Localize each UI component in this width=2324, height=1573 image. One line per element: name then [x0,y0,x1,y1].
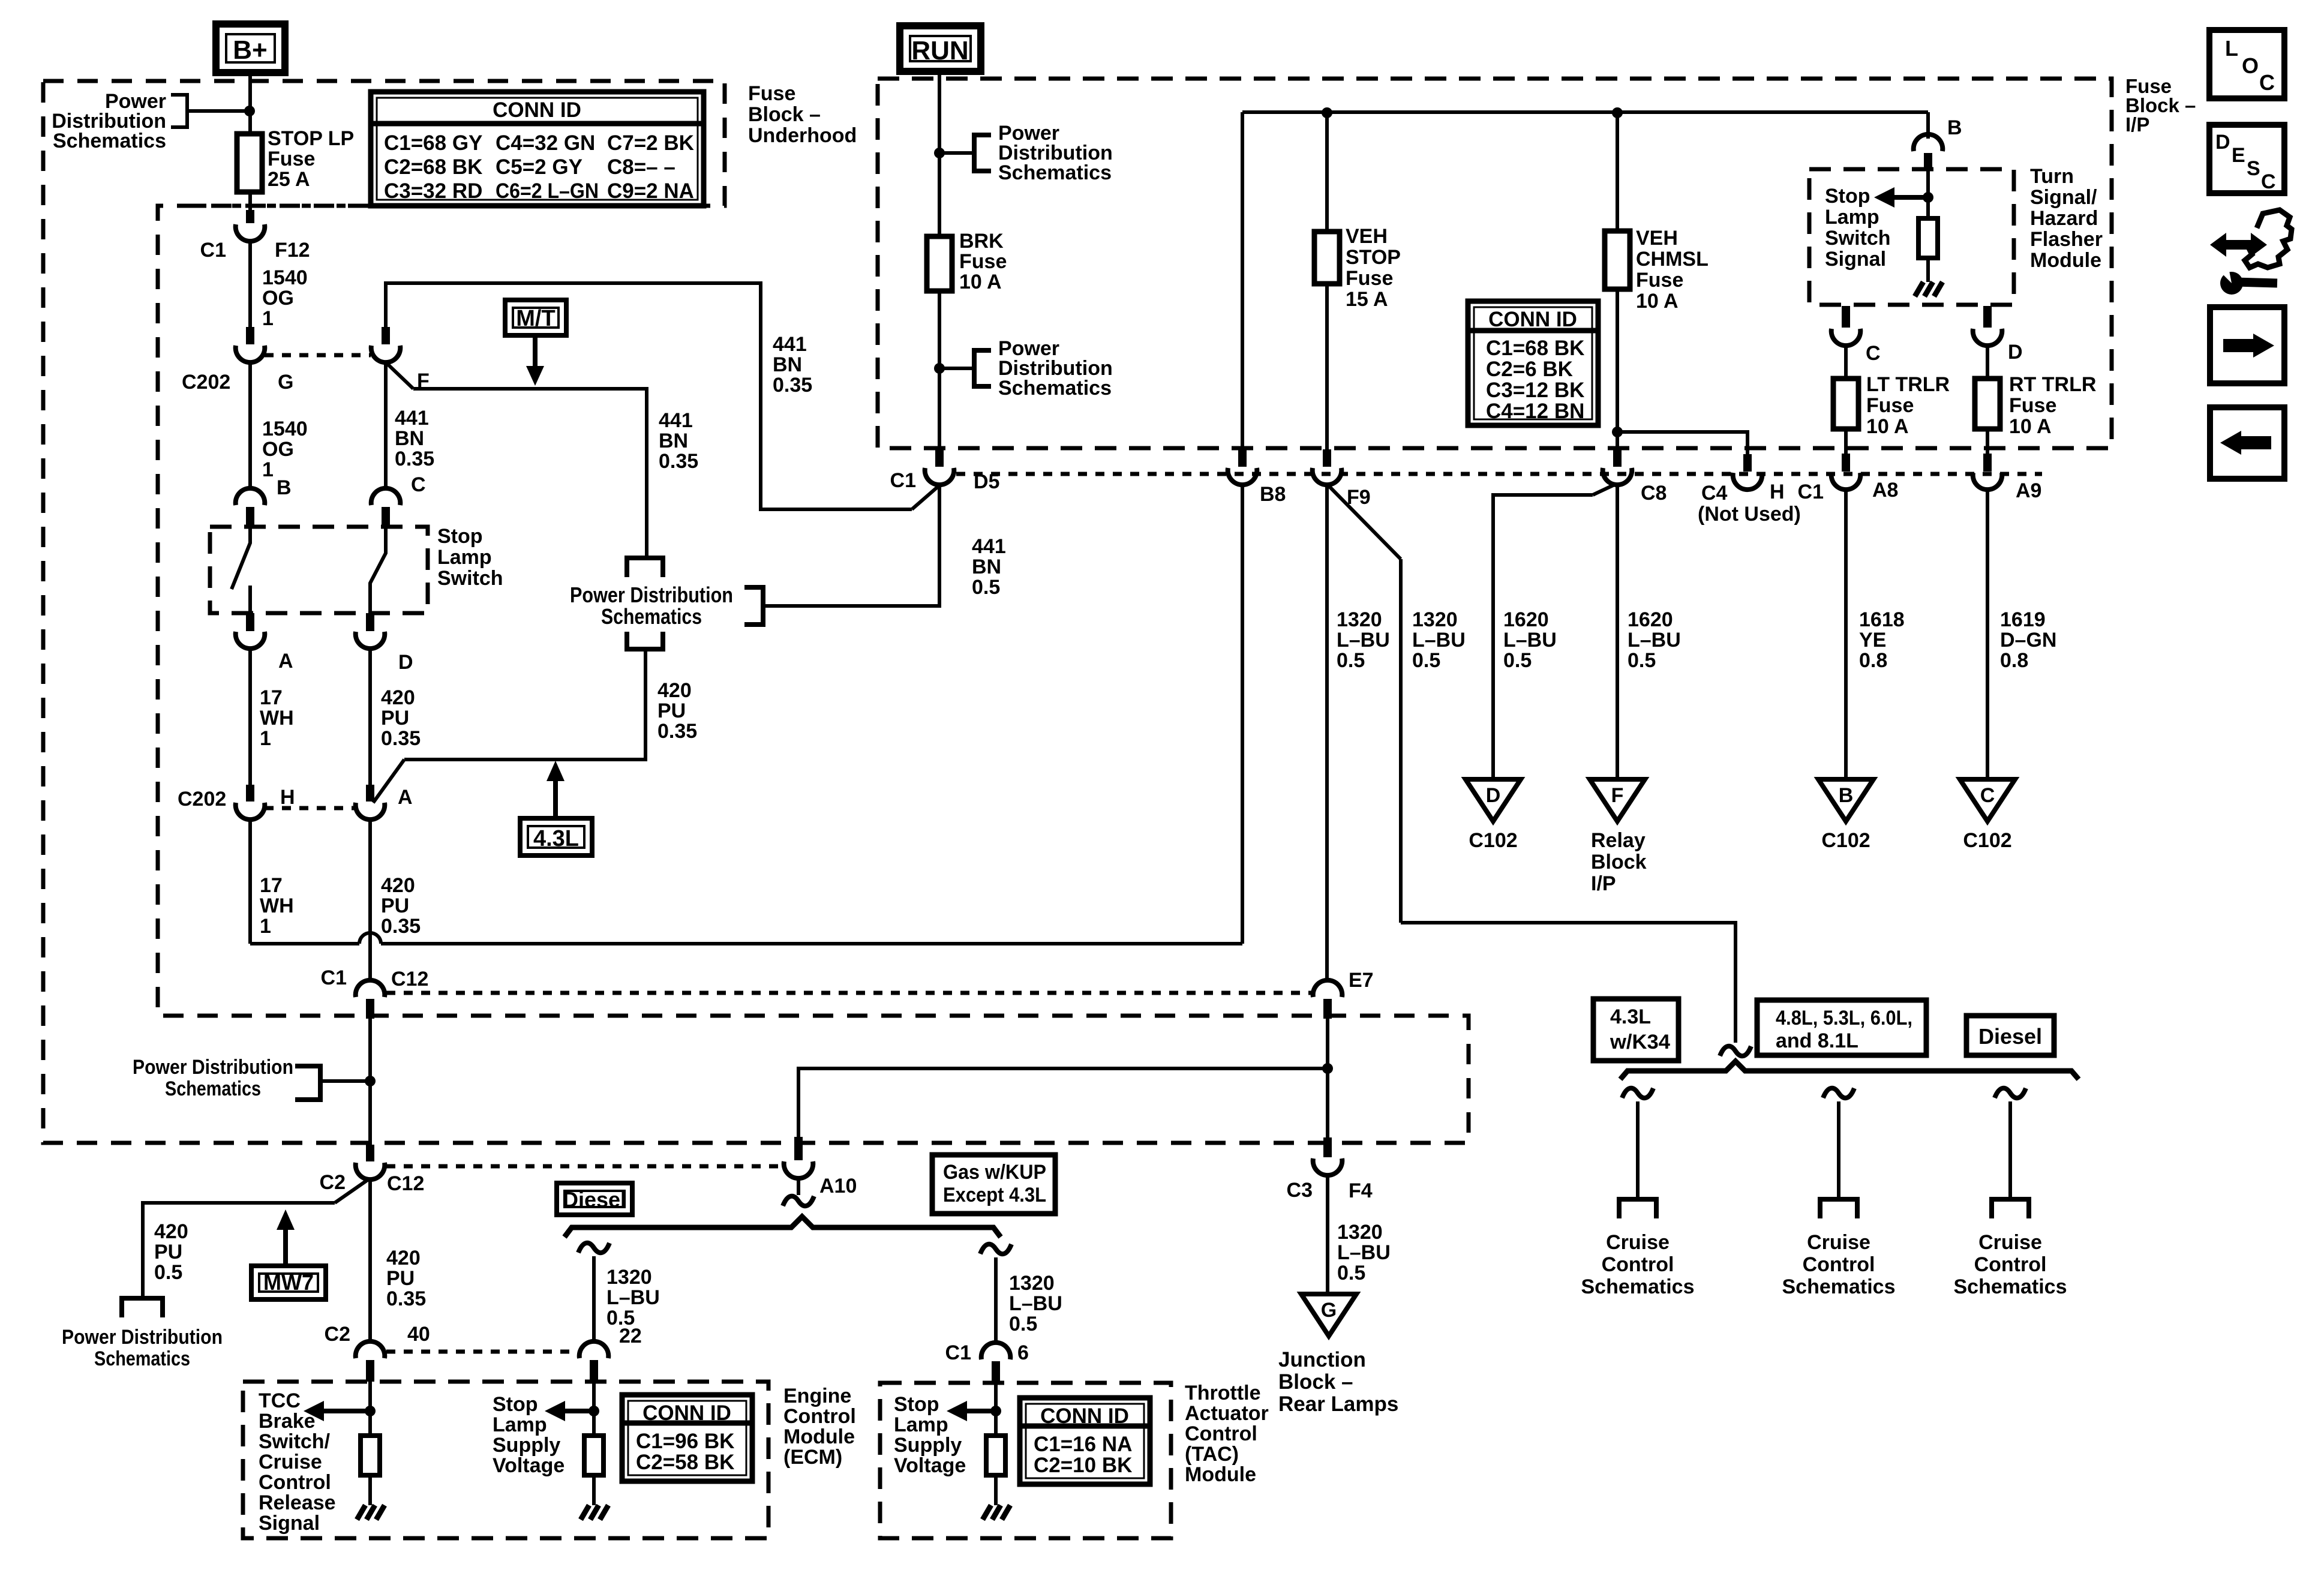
turn signal hazard flasher dashed box [1809,169,2014,305]
svg-text:C3=12 BK: C3=12 BK [1486,379,1584,402]
connector line C202 bottom dotted [265,806,358,810]
terminal bar C [382,507,390,526]
wire A9 to C102 C [1986,488,1989,799]
triangle connector D [1466,779,1521,821]
wire 1320 LBU TAC branch [994,1257,998,1341]
arrow 4.3L to wire [553,781,558,818]
icon schematic navigation [2210,233,2267,257]
svg-text:Fuse: Fuse [1866,394,1914,417]
terminal bar E7 [1323,999,1332,1019]
wire D to RT TRLR fuse [1986,344,1989,379]
arrow MW7 to wire [283,1230,288,1266]
wire 1540 OG to switch B [248,362,252,486]
svg-text:I/P: I/P [2125,113,2149,136]
svg-text:CONN ID: CONN ID [1040,1404,1129,1428]
svg-text:L–BU: L–BU [1412,629,1466,652]
wire from F up to junction corner [386,283,912,509]
wire B8 column upper [1241,112,1244,449]
svg-text:441: 441 [773,333,807,356]
svg-text:L: L [2225,36,2238,61]
arrow stop lamp switch signal [1890,195,1928,200]
svg-text:Stop: Stop [437,525,483,548]
svg-text:0.35: 0.35 [386,1287,426,1310]
resistor ECM TCC input [361,1436,380,1475]
svg-text:C202: C202 [178,788,226,810]
wire fuse to connector C1 [248,192,252,210]
switch contact left [232,527,250,589]
svg-text:C102: C102 [1963,829,2011,852]
svg-text:C2=68 BK: C2=68 BK [384,155,482,179]
ground flasher [1915,282,1923,296]
svg-text:C1=68 GY: C1=68 GY [384,131,482,155]
svg-text:Control: Control [1185,1422,1257,1445]
svg-text:B: B [1839,784,1854,807]
svg-text:0.5: 0.5 [606,1307,635,1329]
switch contact right [370,527,386,613]
svg-text:1320: 1320 [1009,1272,1055,1295]
fuse VEH CHMSL 10A [1605,231,1630,289]
svg-text:F12: F12 [275,239,310,262]
svg-text:Cruise: Cruise [1807,1231,1870,1254]
svg-text:Diesel: Diesel [563,1187,626,1212]
wire VEH STOP fuse lower [1325,284,1329,449]
svg-text:Module: Module [2030,249,2101,272]
svg-text:C1: C1 [321,966,347,989]
svg-text:D: D [2008,341,2023,364]
terminal bar C202 H [246,785,254,801]
svg-text:Turn: Turn [2030,165,2074,188]
wire VEH CHMSL fuse upper [1616,113,1619,231]
svg-text:OG: OG [262,287,294,310]
svg-text:Except 4.3L: Except 4.3L [943,1184,1046,1206]
wire D5 down to reference [763,484,939,606]
svg-text:C4=12 BN: C4=12 BN [1486,400,1584,423]
svg-text:Engine: Engine [783,1385,851,1407]
svg-text:B8: B8 [1260,483,1286,506]
icon box arrow left [2210,407,2284,479]
break squiggle cruise branch 3 [1995,1088,2026,1098]
svg-text:C1=16 NA: C1=16 NA [1034,1433,1132,1456]
bus wire RUN feed top [1242,110,1928,114]
svg-text:C102: C102 [1821,829,1870,852]
terminal bar D flasher out [1983,306,1992,328]
svg-text:1320: 1320 [1337,608,1382,631]
svg-text:C8=– –: C8=– – [607,155,675,179]
svg-text:Fuse: Fuse [748,82,795,105]
wire diagonal F9 branch [1329,486,1401,559]
svg-text:Relay: Relay [1591,829,1646,852]
callout 4.3L w K34 box [1593,999,1679,1061]
node stop lamp supply junction ECM [588,1406,599,1416]
svg-text:441: 441 [659,409,693,432]
wire 420 PU 0.35 to ECM [368,1178,372,1341]
svg-text:Supply: Supply [894,1434,962,1457]
node junction on 420 PU wire [365,1076,376,1086]
svg-text:Power Distribution: Power Distribution [570,583,733,607]
svg-text:PU: PU [386,1267,415,1290]
connector C4 H arc [1733,473,1762,490]
svg-text:Schematics: Schematics [601,604,702,629]
svg-text:STOP LP: STOP LP [268,127,354,150]
svg-text:C9=2 NA: C9=2 NA [607,179,694,203]
wire VEH CHMSL fuse lower [1616,289,1619,449]
svg-text:Stop: Stop [493,1393,538,1416]
svg-text:Cruise: Cruise [259,1451,322,1473]
svg-text:C1: C1 [945,1341,971,1364]
node VEH CHMSL tap [1612,107,1623,118]
triangle connector C [1960,779,2015,821]
wire power distribution tap bottom left [320,1079,370,1083]
fuse LT TRLR 10A [1833,379,1858,429]
power feed B+ box [216,24,285,73]
connector C2 40 arc [356,1341,385,1358]
svg-text:0.5: 0.5 [972,576,1000,599]
svg-text:A8: A8 [1872,479,1898,502]
svg-text:0.5: 0.5 [1337,1262,1365,1284]
svg-text:420: 420 [381,874,415,897]
connector B8 arc [1228,468,1257,485]
wire diagonal A to 420 PU branch [373,760,404,803]
svg-text:10 A: 10 A [959,271,1002,293]
underbrace gas diesel split [565,1217,1001,1237]
svg-text:Throttle: Throttle [1185,1382,1261,1404]
break squiggle cruise feed [1720,1046,1751,1056]
svg-text:Voltage: Voltage [894,1454,966,1477]
svg-text:C5=2 GY: C5=2 GY [496,155,582,179]
wire BRK fuse to D5 [938,291,941,449]
svg-text:C8: C8 [1641,482,1667,505]
wire 420 PU to power distribution center [404,649,645,760]
terminal bar C flasher out [1842,306,1850,328]
svg-text:RT TRLR: RT TRLR [2009,373,2096,396]
svg-text:Lamp: Lamp [493,1413,547,1436]
svg-text:C12: C12 [387,1172,424,1195]
svg-text:420: 420 [381,686,415,709]
svg-text:Fuse: Fuse [959,250,1007,273]
svg-text:PU: PU [154,1241,182,1263]
svg-text:Diesel: Diesel [1978,1024,2042,1049]
terminal bar B8 [1238,449,1247,467]
svg-text:Block: Block [1591,851,1647,873]
wire 420 PU to C2 C12 [368,1019,372,1145]
fuse RT TRLR 10A [1975,379,2000,429]
svg-text:0.5: 0.5 [1412,649,1440,672]
svg-text:C2: C2 [325,1323,350,1346]
connector line C202 dotted [265,353,371,358]
svg-text:PU: PU [381,894,409,917]
connector arc D [356,632,385,649]
connector B arc flasher [1914,134,1943,151]
node H branch tap [1612,427,1623,437]
svg-text:L–BU: L–BU [606,1286,660,1309]
wire cruise branch 2 [1837,1101,1840,1199]
svg-text:Schematics: Schematics [165,1077,261,1100]
conn id table ECM [622,1395,752,1481]
svg-text:C: C [1866,342,1881,365]
node VEH STOP tap [1322,107,1332,118]
wire 17 WH lower segment [248,819,252,944]
connector 22 arc [580,1341,609,1358]
svg-text:Schematics: Schematics [53,130,166,152]
svg-text:LT TRLR: LT TRLR [1866,373,1950,396]
fuse STOP LP 25A [237,134,262,192]
svg-text:Schematics: Schematics [1581,1275,1695,1298]
svg-text:40: 40 [407,1323,430,1346]
svg-text:441: 441 [395,407,429,430]
svg-text:A: A [398,786,413,809]
wire into stop lamp supply node ECM [592,1382,596,1436]
svg-text:C1=96 BK: C1=96 BK [636,1430,734,1453]
svg-text:Lamp: Lamp [1825,206,1879,229]
connector arc A [236,632,265,649]
svg-text:Brake: Brake [259,1410,316,1433]
svg-text:1: 1 [262,307,274,330]
svg-text:1618: 1618 [1859,608,1905,631]
svg-text:Stop: Stop [1825,185,1870,208]
svg-text:TCC: TCC [259,1389,301,1412]
svg-text:C2=6 BK: C2=6 BK [1486,358,1573,381]
svg-text:G: G [1321,1299,1337,1322]
conn id table TAC [1020,1398,1150,1484]
svg-text:Schematics: Schematics [94,1347,190,1370]
svg-text:CHMSL: CHMSL [1636,248,1709,271]
terminal bar C202 G [246,327,254,344]
ignition RUN box [900,26,981,71]
reference bracket center [744,587,763,625]
svg-text:M/T: M/T [516,306,555,331]
svg-text:A: A [278,650,293,673]
icon box DESC [2209,125,2284,193]
svg-text:H: H [280,786,295,809]
terminal bar F9 [1323,449,1331,467]
svg-text:Control: Control [1803,1253,1875,1276]
svg-text:0.5: 0.5 [1628,649,1656,672]
wire cruise branch 1 [1636,1101,1640,1199]
terminal bar pin 22 [590,1360,598,1382]
node stop lamp supply junction TAC [990,1406,1001,1416]
resistor TAC stop lamp input [986,1436,1005,1475]
wire 1320 branch to cruise brace [1401,923,1736,1043]
svg-text:Power Distribution: Power Distribution [133,1056,293,1079]
svg-text:Schematics: Schematics [1782,1275,1896,1298]
svg-text:C6=2 L–GN: C6=2 L–GN [496,179,599,203]
svg-text:w/K34: w/K34 [1610,1031,1670,1053]
connector C202 cavity A [356,803,385,819]
wire diagonal F to power distribution [386,362,413,389]
wire C to LT TRLR fuse [1844,344,1848,379]
wire resistor to ground [368,1475,372,1505]
wire A10 link to F4 node [798,1068,1328,1137]
svg-text:0.35: 0.35 [659,450,698,473]
connector arc C at switch [371,488,401,505]
wire 17 WH segment [248,648,252,785]
svg-text:E7: E7 [1349,969,1374,992]
terminal bar C2 C12 [366,1145,374,1161]
terminal bar C202 A [366,785,374,801]
wire 1320 branch down [1399,559,1403,923]
fuse VEH STOP 15A [1314,232,1340,284]
connector C1 F12 [236,224,265,241]
gas w KUP callout box [932,1155,1055,1214]
svg-text:420: 420 [657,679,692,702]
wire 441 BN to center reference [413,389,647,558]
svg-text:10 A: 10 A [2009,415,2052,438]
reference bracket power distribution schematics [171,95,187,127]
svg-text:O: O [2242,53,2259,78]
node junction on B+ wire [244,106,255,116]
svg-text:CONN ID: CONN ID [1488,308,1577,331]
wire diagonal into C1 D5 [912,485,939,509]
svg-text:Flasher: Flasher [2030,228,2103,251]
svg-text:CONN ID: CONN ID [642,1401,731,1425]
reference stub cruise 1 [1619,1199,1656,1218]
reference bracket RUN upper [974,135,991,171]
connector F9 arc [1313,468,1342,485]
node junction at F4 column [1322,1063,1333,1074]
break squiggle cruise branch 1 [1622,1088,1653,1098]
svg-text:Fuse: Fuse [1636,269,1683,292]
connector E7 arc [1313,980,1343,997]
reference bracket bottom left [295,1066,320,1100]
connector C2 C12 arc [356,1163,385,1179]
svg-text:420: 420 [386,1247,421,1269]
svg-text:C: C [2261,170,2276,193]
svg-text:17: 17 [260,874,283,897]
svg-text:1620: 1620 [1503,608,1549,631]
M/T callout box [505,300,566,335]
terminal bar D [366,613,374,631]
svg-text:C1: C1 [200,239,226,262]
svg-text:C1: C1 [1798,481,1824,503]
wire to power distribution bracket [187,109,250,113]
svg-text:L–BU: L–BU [1337,629,1390,652]
svg-text:15 A: 15 A [1346,288,1388,311]
terminal bar C2 40 [366,1360,374,1382]
ground TAC stop lamp [983,1505,991,1520]
svg-text:0.8: 0.8 [2000,649,2028,672]
svg-text:STOP: STOP [1346,246,1401,269]
svg-text:D: D [1486,784,1501,807]
svg-text:BRK: BRK [959,230,1004,253]
svg-text:BN: BN [972,556,1001,578]
svg-text:Control: Control [783,1405,856,1428]
conn id table IP [1468,301,1598,425]
terminal bar A [246,613,254,631]
terminal bar B flasher [1924,153,1932,170]
terminal bar A8 [1842,454,1850,472]
svg-text:D: D [2215,131,2230,154]
svg-text:F4: F4 [1349,1179,1373,1202]
reference bracket RUN lower [974,350,991,386]
break squiggle A10 [783,1196,814,1206]
svg-text:YE: YE [1859,629,1886,652]
svg-text:Gas w/KUP: Gas w/KUP [943,1161,1046,1184]
connector line C2 C12 dotted [386,1164,781,1169]
connector A10 arc [784,1161,813,1178]
arrow TCC brake switch signal [319,1409,370,1413]
svg-text:Schematics: Schematics [1954,1275,2067,1298]
svg-text:and 8.1L: and 8.1L [1776,1029,1858,1052]
resistor flasher [1918,218,1938,258]
svg-text:Control: Control [1974,1253,2047,1276]
svg-text:1320: 1320 [606,1266,652,1289]
reference stub below center text [627,632,663,649]
wire flasher resistor to ground [1926,258,1930,282]
wire 420 PU segment [368,648,372,785]
svg-text:Cruise: Cruise [1978,1231,2042,1254]
svg-text:L–BU: L–BU [1628,629,1681,652]
callout 4.3L box [520,818,592,855]
svg-text:(Not Used): (Not Used) [1698,503,1801,526]
svg-text:L–BU: L–BU [1337,1241,1391,1264]
connector line C2 40 dotted [386,1350,577,1354]
wire B8 to stop lamp bus [1241,484,1244,944]
svg-text:Schematics: Schematics [998,377,1112,400]
svg-text:BN: BN [773,353,802,376]
ground ECM stop lamp [581,1505,589,1520]
svg-text:WH: WH [260,894,294,917]
stop lamp switch dashed box [210,527,428,613]
svg-text:C3: C3 [1287,1179,1313,1202]
svg-text:Switch: Switch [1825,227,1891,250]
svg-text:10 A: 10 A [1866,415,1909,438]
wire RUN to BRK fuse [938,71,941,236]
connector C1 D5 arc [925,468,954,485]
terminal bar C3 F4 [1323,1137,1332,1157]
svg-text:0.5: 0.5 [1337,649,1365,672]
engine control module dashed box [243,1382,768,1538]
svg-text:Junction: Junction [1278,1348,1366,1371]
svg-text:C2=58 BK: C2=58 BK [636,1451,734,1474]
svg-text:B: B [1947,116,1962,139]
svg-text:0.35: 0.35 [381,727,421,750]
callout 4.8 5.3 6.0 8.1 box [1757,1000,1926,1055]
wire 420 PU lower segment [368,819,372,981]
svg-text:Fuse: Fuse [1346,267,1393,290]
svg-text:Supply: Supply [493,1434,560,1457]
connector A9 arc [1973,473,2002,490]
svg-text:A10: A10 [819,1175,857,1197]
triangle connector B [1818,779,1873,821]
svg-text:0.5: 0.5 [154,1261,182,1284]
svg-text:0.5: 0.5 [1503,649,1532,672]
node flasher junction [1923,192,1933,203]
svg-text:D–GN: D–GN [2000,629,2056,652]
svg-text:CONN ID: CONN ID [493,98,581,122]
svg-text:D: D [398,651,413,674]
svg-text:G: G [278,371,293,394]
svg-text:1620: 1620 [1628,608,1673,631]
fuse BRK 10A [927,236,952,291]
diesel callout box left [557,1183,632,1215]
svg-text:C7=2 BK: C7=2 BK [607,131,694,155]
svg-text:1540: 1540 [262,266,308,289]
arrow from M/T to wire [533,335,538,368]
terminal bar C202 F [382,327,390,344]
svg-text:Cruise: Cruise [1606,1231,1670,1254]
reference stub above center text [627,558,663,577]
svg-text:0.35: 0.35 [773,374,812,397]
svg-text:C4: C4 [1701,482,1728,505]
wire F to stop lamp switch C [384,362,388,486]
connector arc B at switch [236,488,265,505]
connector C202 cavity F [371,346,401,362]
svg-text:L–BU: L–BU [1009,1292,1062,1315]
wire into stop lamp supply node TAC [994,1383,998,1436]
svg-text:Block –: Block – [748,103,821,126]
svg-text:Underhood: Underhood [748,124,857,147]
wire VEH STOP fuse upper [1325,113,1329,232]
